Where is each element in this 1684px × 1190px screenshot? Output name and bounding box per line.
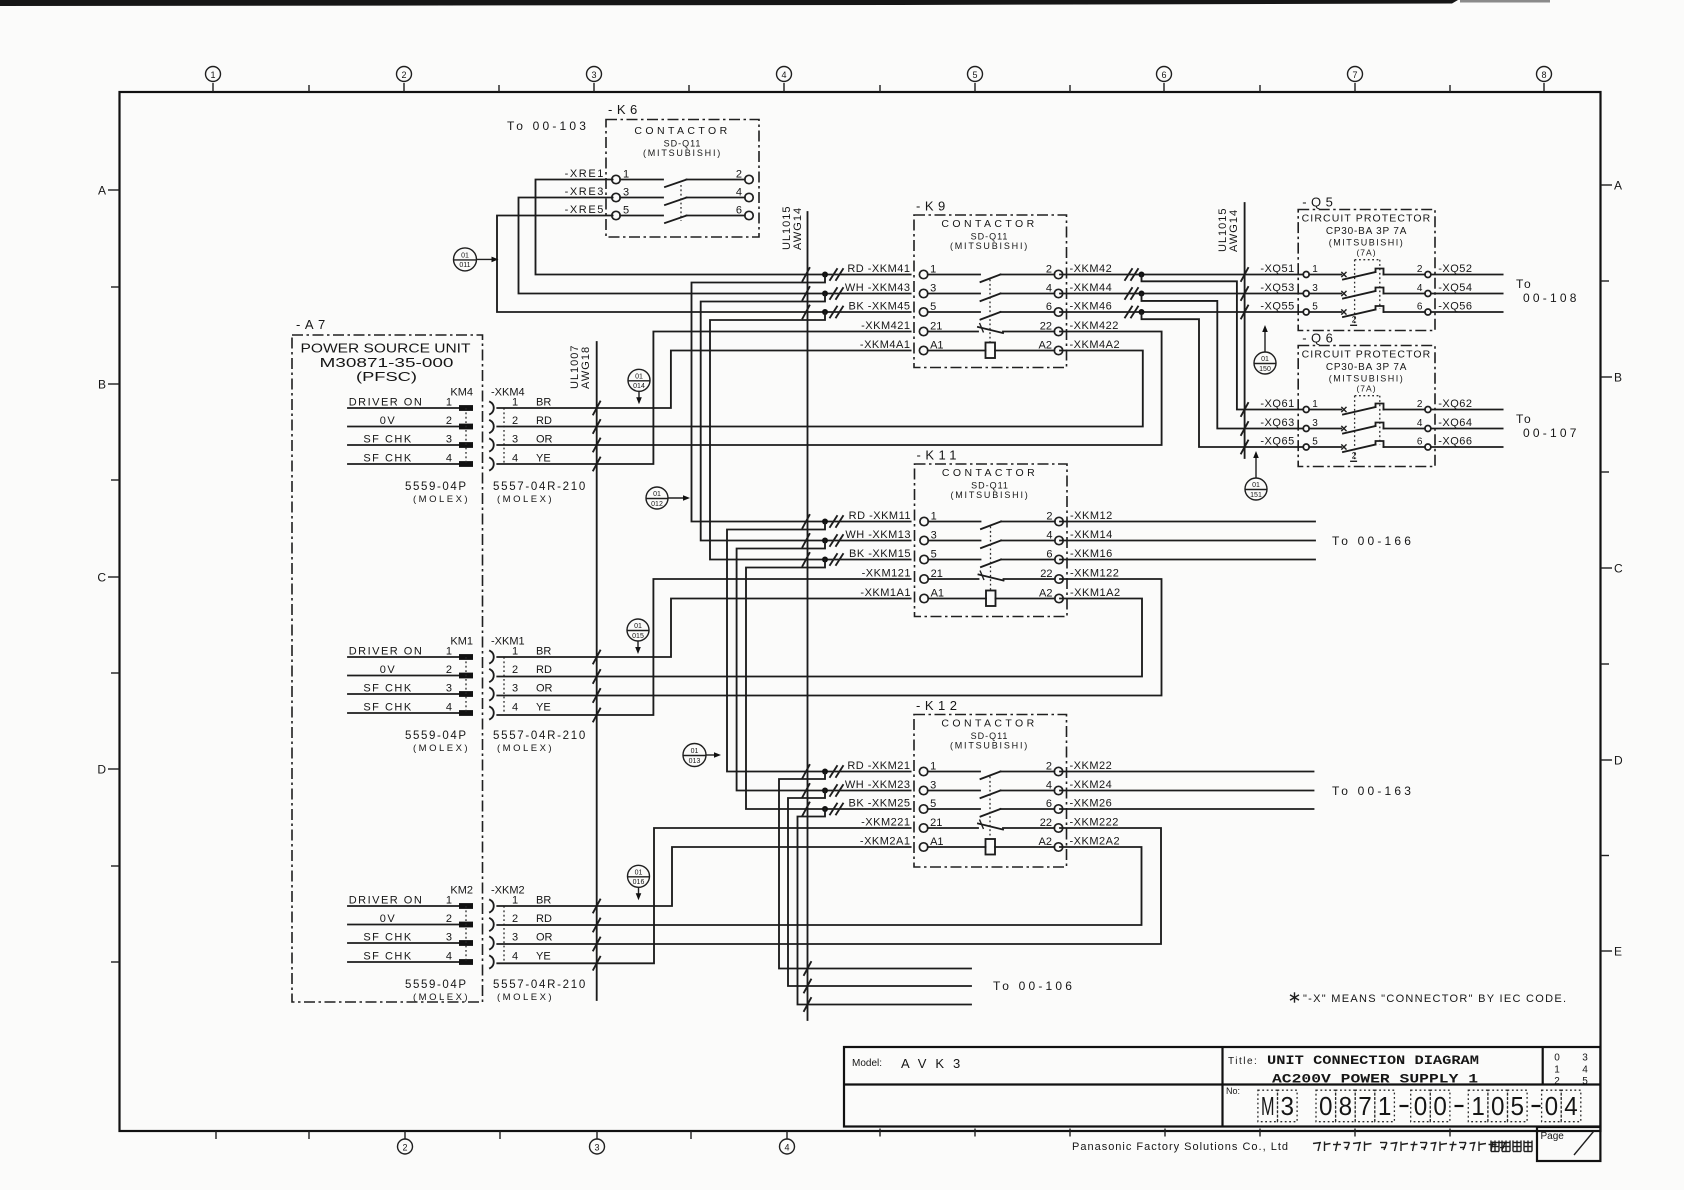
svg-text:To: To xyxy=(1516,412,1533,426)
XKM4 harness: BR wire to coil A1 xyxy=(497,351,910,415)
svg-text:-XQ53: -XQ53 xyxy=(1260,282,1294,294)
svg-text:M: M xyxy=(1261,1091,1275,1121)
svg-text:-XKM2A2: -XKM2A2 xyxy=(1070,836,1121,848)
svg-text:151: 151 xyxy=(1250,492,1262,499)
title block xyxy=(844,1047,1600,1127)
svg-text:(MOLEX): (MOLEX) xyxy=(497,992,554,1003)
svg-text:-XQ54: -XQ54 xyxy=(1438,282,1472,294)
svg-text:YE: YE xyxy=(536,452,551,464)
svg-text:4: 4 xyxy=(784,1142,789,1152)
svg-text:(MOLEX): (MOLEX) xyxy=(413,992,470,1003)
svg-text:(MITSUBISHI): (MITSUBISHI) xyxy=(950,241,1029,251)
svg-text:6: 6 xyxy=(1046,798,1052,810)
svg-text:8: 8 xyxy=(1541,70,1546,80)
svg-text:4: 4 xyxy=(446,950,452,962)
sheet ref 01/150 xyxy=(1254,325,1276,374)
svg-text:KM1: KM1 xyxy=(450,636,473,648)
svg-text:BK -XKM25: BK -XKM25 xyxy=(849,798,911,810)
sheet ref 01/013 xyxy=(683,744,721,767)
svg-text:BK -XKM15: BK -XKM15 xyxy=(849,548,911,560)
svg-text:013: 013 xyxy=(689,758,701,765)
svg-text:2: 2 xyxy=(446,913,452,925)
svg-text:015: 015 xyxy=(632,633,644,640)
sheet ref 01/014 xyxy=(628,369,650,404)
svg-text:(MITSUBISHI): (MITSUBISHI) xyxy=(1329,374,1405,384)
svg-text:4: 4 xyxy=(446,452,452,464)
svg-text:KM4: KM4 xyxy=(450,387,473,399)
svg-text:2: 2 xyxy=(446,664,452,676)
svg-text:1: 1 xyxy=(210,70,215,80)
svg-text:5: 5 xyxy=(1312,437,1318,448)
page box xyxy=(1537,1127,1600,1161)
svg-text:2: 2 xyxy=(512,913,518,925)
svg-text:To 00-106: To 00-106 xyxy=(993,979,1075,993)
wire K9.2 (-XKM42) to Q5.1 and Q6.1 xyxy=(1060,268,1303,416)
svg-text:22: 22 xyxy=(1040,568,1052,580)
svg-text:2: 2 xyxy=(401,70,406,80)
svg-text:Panasonic Factory Solutions Co: Panasonic Factory Solutions Co., Ltd xyxy=(1072,1141,1288,1153)
svg-text:(MITSUBISHI): (MITSUBISHI) xyxy=(950,490,1029,500)
svg-text:(MOLEX): (MOLEX) xyxy=(413,743,470,754)
wire K9.4 (-XKM44) to Q5.3 and Q6.3 xyxy=(1060,287,1303,435)
wire net RD (K6.1 to K9.1/K11.1/K12.1, To 00-106) xyxy=(536,180,972,976)
svg-text:5: 5 xyxy=(972,70,977,80)
svg-text:C: C xyxy=(1614,562,1623,576)
svg-text:D: D xyxy=(97,763,106,777)
svg-text:-XQ62: -XQ62 xyxy=(1438,398,1472,410)
svg-text:5559-04P: 5559-04P xyxy=(405,730,468,742)
note: -X means connector by IEC code xyxy=(1290,992,1566,1005)
svg-text:BR: BR xyxy=(536,645,551,657)
svg-text:3: 3 xyxy=(446,931,452,943)
XKM2 harness: BR wire to coil A1 xyxy=(497,847,910,913)
svg-text:SF CHK: SF CHK xyxy=(363,931,412,943)
svg-text:-K11: -K11 xyxy=(917,448,962,463)
svg-text:(MOLEX): (MOLEX) xyxy=(497,743,554,754)
svg-text:1: 1 xyxy=(446,396,452,408)
svg-text:1: 1 xyxy=(1471,1091,1485,1121)
svg-text:011: 011 xyxy=(459,262,470,269)
svg-text:01: 01 xyxy=(635,870,643,877)
svg-text:3: 3 xyxy=(1582,1053,1588,1064)
svg-text:-K9: -K9 xyxy=(916,199,950,214)
svg-text:AVK3: AVK3 xyxy=(901,1056,969,1071)
XKM1 harness: OR wire (SF CHK to contact 22) xyxy=(497,579,1161,702)
svg-text:-XRE5: -XRE5 xyxy=(565,204,605,216)
circuit protector Q6 xyxy=(1260,331,1472,467)
svg-text:8: 8 xyxy=(1339,1091,1353,1121)
svg-text:DRIVER ON: DRIVER ON xyxy=(349,894,424,906)
svg-text:2: 2 xyxy=(1046,510,1052,522)
svg-text:1: 1 xyxy=(512,645,518,657)
wire-class line UL1015 AWG14 (right) xyxy=(1217,203,1245,458)
svg-text:0: 0 xyxy=(1433,1091,1447,1121)
svg-text:5: 5 xyxy=(1582,1076,1588,1087)
svg-text:3: 3 xyxy=(594,1142,599,1152)
svg-text:0: 0 xyxy=(1545,1091,1559,1121)
svg-text:(7A): (7A) xyxy=(1356,384,1376,394)
svg-text:-XKM46: -XKM46 xyxy=(1070,301,1113,313)
svg-text:CONTACTOR: CONTACTOR xyxy=(941,718,1037,730)
svg-text:-XKM221: -XKM221 xyxy=(861,817,910,829)
svg-text:CIRCUIT PROTECTOR: CIRCUIT PROTECTOR xyxy=(1302,349,1432,361)
svg-text:B: B xyxy=(1614,371,1622,385)
svg-text:1: 1 xyxy=(446,645,452,657)
svg-text:-XKM14: -XKM14 xyxy=(1070,529,1113,541)
svg-text:RD -XKM11: RD -XKM11 xyxy=(849,510,911,522)
svg-text:A: A xyxy=(98,184,106,198)
drawing border frame xyxy=(120,92,1601,1131)
svg-text:0: 0 xyxy=(1491,1091,1505,1121)
wires Q5 outputs to 00-108 xyxy=(1431,275,1580,313)
XKM2 harness: YE wire (SF CHK to contact 21) xyxy=(497,828,910,970)
svg-text:4: 4 xyxy=(1046,529,1052,541)
svg-text:3: 3 xyxy=(512,433,518,445)
svg-text:1: 1 xyxy=(512,396,518,408)
svg-text:DRIVER ON: DRIVER ON xyxy=(349,645,424,657)
company name xyxy=(1072,1141,1532,1154)
svg-text:4: 4 xyxy=(1046,282,1052,294)
XKM4 harness: YE wire (SF CHK to contact 21) xyxy=(497,332,910,471)
svg-text:01: 01 xyxy=(653,491,661,498)
svg-text:RD: RD xyxy=(536,664,552,676)
svg-text:-XQ61: -XQ61 xyxy=(1260,398,1294,410)
svg-text:-Q5: -Q5 xyxy=(1302,195,1337,210)
svg-text:-XQ51: -XQ51 xyxy=(1260,263,1294,275)
svg-text:YE: YE xyxy=(536,950,551,962)
svg-text:2: 2 xyxy=(736,168,742,180)
svg-text:4: 4 xyxy=(736,186,742,198)
svg-text:OR: OR xyxy=(536,931,553,943)
svg-text:01: 01 xyxy=(634,623,642,630)
svg-text:01: 01 xyxy=(691,748,699,755)
svg-text:No:: No: xyxy=(1226,1086,1240,1096)
svg-text:WH -XKM43: WH -XKM43 xyxy=(845,282,911,294)
svg-text:3: 3 xyxy=(446,433,452,445)
sheet ref 01/151 xyxy=(1245,451,1267,500)
svg-text:5557-04R-210: 5557-04R-210 xyxy=(493,481,587,493)
svg-text:DRIVER ON: DRIVER ON xyxy=(349,396,424,408)
svg-text:E: E xyxy=(1614,945,1622,959)
wire net WH (K6.3 to K9.3/K11.3/K12.3, To 00-106) xyxy=(519,198,972,993)
svg-text:SF CHK: SF CHK xyxy=(363,682,412,694)
svg-text:2: 2 xyxy=(1352,314,1357,324)
drawing number boxes M3 0871-00-105-04 xyxy=(1258,1090,1581,1122)
svg-text:-XQ64: -XQ64 xyxy=(1438,417,1472,429)
svg-text:AC200V POWER SUPPLY 1: AC200V POWER SUPPLY 1 xyxy=(1272,1072,1478,1087)
svg-text:2: 2 xyxy=(1417,399,1423,410)
svg-text:SD-Q11: SD-Q11 xyxy=(971,232,1009,242)
svg-text:SF CHK: SF CHK xyxy=(363,433,412,445)
svg-text:BK -XKM45: BK -XKM45 xyxy=(849,301,911,313)
svg-text:3: 3 xyxy=(1281,1091,1295,1121)
svg-text:CONTACTOR: CONTACTOR xyxy=(941,218,1037,230)
svg-text:-XKM12: -XKM12 xyxy=(1070,510,1113,522)
row markers left A-D xyxy=(97,184,119,963)
svg-text:2: 2 xyxy=(1352,450,1357,460)
svg-text:RD -XKM21: RD -XKM21 xyxy=(847,760,910,772)
svg-text:4: 4 xyxy=(446,701,452,713)
svg-text:Page: Page xyxy=(1541,1131,1565,1142)
contactor K9 xyxy=(845,199,1120,368)
svg-text:RD: RD xyxy=(536,415,552,427)
svg-text:CIRCUIT PROTECTOR: CIRCUIT PROTECTOR xyxy=(1302,213,1432,225)
svg-text:7: 7 xyxy=(1358,1091,1372,1121)
scan artifact: top black bar xyxy=(0,0,1550,6)
svg-text:-XQ63: -XQ63 xyxy=(1260,417,1294,429)
svg-text:016: 016 xyxy=(633,879,645,886)
svg-text:4: 4 xyxy=(512,452,518,464)
svg-text:D: D xyxy=(1614,754,1623,768)
svg-text:AWG18: AWG18 xyxy=(580,346,592,389)
svg-text:012: 012 xyxy=(651,501,663,508)
svg-text:"-X" MEANS "CONNECTOR" BY IEC: "-X" MEANS "CONNECTOR" BY IEC CODE. xyxy=(1303,993,1566,1005)
svg-text:-XKM4A1: -XKM4A1 xyxy=(860,339,911,351)
svg-text:Model:: Model: xyxy=(852,1058,882,1069)
XKM4 harness: RD wire (0V return from coil A2) xyxy=(497,351,1143,434)
svg-text:3: 3 xyxy=(1312,418,1318,429)
svg-text:SF CHK: SF CHK xyxy=(363,452,412,464)
sheet ref 01/011 xyxy=(454,248,499,271)
svg-text:BR: BR xyxy=(536,396,551,408)
svg-text:1: 1 xyxy=(1554,1064,1560,1075)
svg-text:6: 6 xyxy=(1046,301,1052,313)
circuit protector Q5 xyxy=(1260,195,1472,331)
svg-text:(MOLEX): (MOLEX) xyxy=(497,494,554,505)
svg-text:AWG14: AWG14 xyxy=(792,207,804,250)
svg-text:-XKM44: -XKM44 xyxy=(1070,282,1113,294)
svg-text:6: 6 xyxy=(736,204,742,216)
svg-text:3: 3 xyxy=(1312,283,1318,294)
svg-text:(MITSUBISHI): (MITSUBISHI) xyxy=(950,741,1029,751)
svg-text:2: 2 xyxy=(1417,264,1423,275)
svg-text:-XKM122: -XKM122 xyxy=(1070,568,1119,580)
svg-text:M30871-35-000: M30871-35-000 xyxy=(320,355,454,370)
svg-text:OR: OR xyxy=(536,682,553,694)
svg-text:5557-04R-210: 5557-04R-210 xyxy=(493,979,587,991)
sheet ref 01/012 xyxy=(646,487,690,509)
svg-text:-XRE1: -XRE1 xyxy=(565,168,605,180)
svg-text:-XKM4A2: -XKM4A2 xyxy=(1070,339,1121,351)
svg-text:1: 1 xyxy=(1378,1091,1392,1121)
svg-text:0: 0 xyxy=(1319,1091,1333,1121)
wire K9.6 (-XKM46) to Q5.5 and Q6.5 xyxy=(1060,306,1303,454)
connector KM1 / -XKM1 (PSU harness) xyxy=(348,636,587,755)
XKM1 harness: RD wire (0V return from coil A2) xyxy=(497,599,1142,684)
XKM2 harness: OR wire (SF CHK to contact 22) xyxy=(497,828,1161,951)
svg-text:-XQ52: -XQ52 xyxy=(1438,263,1472,275)
contactor K12 xyxy=(845,698,1120,867)
wire net BK (K6.5 to K9.5/K11.5/K12.5, To 00-106) xyxy=(497,216,971,1012)
svg-text:OR: OR xyxy=(536,433,553,445)
svg-text:-XKM24: -XKM24 xyxy=(1070,779,1113,791)
svg-text:-XKM2: -XKM2 xyxy=(491,885,525,897)
svg-text:-XQ66: -XQ66 xyxy=(1438,436,1472,448)
svg-text:01: 01 xyxy=(1261,356,1269,363)
svg-text:SD-Q11: SD-Q11 xyxy=(971,481,1009,491)
svg-text:5: 5 xyxy=(1511,1091,1525,1121)
svg-text:SF CHK: SF CHK xyxy=(363,950,412,962)
svg-text:0V: 0V xyxy=(380,913,396,925)
svg-text:4: 4 xyxy=(512,950,518,962)
svg-text:2: 2 xyxy=(1554,1076,1560,1087)
svg-text:6: 6 xyxy=(1161,70,1166,80)
svg-text:To 00-163: To 00-163 xyxy=(1332,784,1414,798)
svg-text:CP30-BA 3P 7A: CP30-BA 3P 7A xyxy=(1326,226,1407,237)
svg-text:3: 3 xyxy=(591,70,596,80)
svg-text:150: 150 xyxy=(1259,366,1271,373)
connector KM4 / -XKM4 (PSU harness) xyxy=(348,387,587,506)
XKM1 harness: YE wire (SF CHK to contact 21) xyxy=(497,579,910,722)
wires K12 outputs to 00-163 xyxy=(1060,772,1414,810)
svg-text:WH -XKM13: WH -XKM13 xyxy=(845,529,911,541)
column markers top 1-8 xyxy=(206,67,1552,93)
row markers right A-E xyxy=(1601,179,1624,959)
svg-text:WH -XKM23: WH -XKM23 xyxy=(845,779,911,791)
svg-text:-XQ55: -XQ55 xyxy=(1260,301,1294,313)
sheet ref 01/016 xyxy=(628,865,650,900)
svg-text:01: 01 xyxy=(461,253,469,260)
svg-text:01: 01 xyxy=(635,374,643,381)
svg-text:01: 01 xyxy=(1252,482,1260,489)
svg-text:2: 2 xyxy=(402,1142,407,1152)
svg-text:5559-04P: 5559-04P xyxy=(405,979,468,991)
svg-text:0: 0 xyxy=(1554,1053,1560,1064)
svg-text:7: 7 xyxy=(1352,70,1357,80)
svg-text:-XQ65: -XQ65 xyxy=(1260,436,1294,448)
svg-text:5: 5 xyxy=(1312,302,1318,313)
svg-text:CP30-BA 3P 7A: CP30-BA 3P 7A xyxy=(1326,362,1407,373)
svg-text:UNIT CONNECTION DIAGRAM: UNIT CONNECTION DIAGRAM xyxy=(1267,1053,1479,1068)
svg-text:C: C xyxy=(97,571,106,585)
column markers bottom 2-4 xyxy=(216,1129,1450,1155)
svg-text:AWG14: AWG14 xyxy=(1228,209,1240,252)
wire-class line UL1015 AWG14 (left) xyxy=(781,205,808,1020)
svg-text:To 00-103: To 00-103 xyxy=(507,119,589,133)
svg-text:POWER SOURCE UNIT: POWER SOURCE UNIT xyxy=(301,341,471,356)
svg-text:-K12: -K12 xyxy=(916,698,961,713)
svg-text:-XKM22: -XKM22 xyxy=(1070,760,1113,772)
XKM2 harness: RD wire (0V return from coil A2) xyxy=(497,847,1141,932)
svg-text:RD: RD xyxy=(536,913,552,925)
svg-text:To: To xyxy=(1516,277,1533,291)
svg-text:-XKM121: -XKM121 xyxy=(862,568,911,580)
wires Q6 outputs to 00-107 xyxy=(1431,410,1580,448)
svg-text:-A7: -A7 xyxy=(296,317,330,332)
svg-text:A2: A2 xyxy=(1039,339,1052,351)
svg-text:-XKM26: -XKM26 xyxy=(1070,798,1113,810)
svg-text:00-108: 00-108 xyxy=(1523,291,1580,305)
svg-text:B: B xyxy=(98,378,106,392)
svg-text:5559-04P: 5559-04P xyxy=(405,481,468,493)
svg-text:0V: 0V xyxy=(380,664,396,676)
contactor K6 xyxy=(565,102,759,237)
svg-text:YE: YE xyxy=(536,701,551,713)
svg-text:3: 3 xyxy=(512,931,518,943)
svg-text:A2: A2 xyxy=(1039,836,1052,848)
connector KM2 / -XKM2 (PSU harness) xyxy=(348,885,587,1004)
svg-text:4: 4 xyxy=(1417,418,1423,429)
svg-text:Title:: Title: xyxy=(1228,1056,1258,1067)
power source unit A7 xyxy=(292,317,483,1002)
sheet ref 01/015 xyxy=(627,619,649,654)
svg-text:00-107: 00-107 xyxy=(1523,426,1580,440)
svg-text:6: 6 xyxy=(1417,437,1423,448)
svg-text:-XKM42: -XKM42 xyxy=(1070,263,1113,275)
svg-text:2: 2 xyxy=(512,415,518,427)
svg-text:-XKM422: -XKM422 xyxy=(1070,320,1119,332)
svg-text:CONTACTOR: CONTACTOR xyxy=(942,467,1038,479)
svg-text:(MITSUBISHI): (MITSUBISHI) xyxy=(643,148,722,158)
svg-text:4: 4 xyxy=(512,701,518,713)
svg-text:RD -XKM41: RD -XKM41 xyxy=(847,263,910,275)
contactor K11 xyxy=(845,448,1120,617)
svg-text:5557-04R-210: 5557-04R-210 xyxy=(493,730,587,742)
svg-text:(MOLEX): (MOLEX) xyxy=(413,494,470,505)
svg-text:To 00-166: To 00-166 xyxy=(1332,534,1414,548)
svg-text:0V: 0V xyxy=(380,415,396,427)
svg-text:-Q6: -Q6 xyxy=(1302,331,1337,346)
svg-text:6: 6 xyxy=(1417,302,1423,313)
svg-text:3: 3 xyxy=(512,682,518,694)
svg-text:-XKM1A1: -XKM1A1 xyxy=(860,587,911,599)
svg-text:A: A xyxy=(1614,179,1622,193)
svg-text:22: 22 xyxy=(1040,320,1052,332)
svg-text:1: 1 xyxy=(1312,399,1318,410)
svg-text:2: 2 xyxy=(1046,760,1052,772)
wire-class line UL1007 AWG18 xyxy=(569,342,597,1000)
svg-text:(MITSUBISHI): (MITSUBISHI) xyxy=(1329,238,1405,248)
svg-text:4: 4 xyxy=(1417,283,1423,294)
svg-text:-XKM1A2: -XKM1A2 xyxy=(1070,587,1121,599)
XKM4 harness: OR wire (SF CHK to contact 22) xyxy=(497,332,1161,452)
svg-text:(PFSC): (PFSC) xyxy=(356,369,417,384)
svg-text:2: 2 xyxy=(1046,263,1052,275)
svg-text:4: 4 xyxy=(1564,1091,1578,1121)
svg-text:SD-Q11: SD-Q11 xyxy=(971,731,1009,741)
svg-text:014: 014 xyxy=(633,383,645,390)
svg-text:SD-Q11: SD-Q11 xyxy=(664,139,702,149)
svg-text:-XRE3: -XRE3 xyxy=(565,186,605,198)
svg-text:1: 1 xyxy=(512,894,518,906)
svg-text:-XKM16: -XKM16 xyxy=(1070,548,1113,560)
svg-text:4: 4 xyxy=(781,70,786,80)
svg-text:(7A): (7A) xyxy=(1356,248,1376,258)
svg-text:-K6: -K6 xyxy=(608,102,642,117)
wires K11 outputs to 00-166 xyxy=(1060,522,1414,560)
svg-text:2: 2 xyxy=(446,415,452,427)
svg-text:-XQ56: -XQ56 xyxy=(1438,301,1472,313)
svg-text:0: 0 xyxy=(1414,1091,1428,1121)
svg-text:SF CHK: SF CHK xyxy=(363,701,412,713)
svg-text:6: 6 xyxy=(1046,548,1052,560)
svg-text:22: 22 xyxy=(1040,817,1052,829)
XKM1 harness: BR wire to coil A1 xyxy=(497,599,910,664)
svg-text:3: 3 xyxy=(446,682,452,694)
svg-text:1: 1 xyxy=(1312,264,1318,275)
svg-text:-XKM421: -XKM421 xyxy=(861,320,910,332)
svg-text:-XKM2A1: -XKM2A1 xyxy=(860,836,911,848)
svg-text:BR: BR xyxy=(536,894,551,906)
svg-text:A2: A2 xyxy=(1039,587,1052,599)
svg-text:4: 4 xyxy=(1582,1064,1588,1075)
svg-text:-XKM222: -XKM222 xyxy=(1070,817,1119,829)
svg-text:KM2: KM2 xyxy=(450,885,473,897)
svg-text:2: 2 xyxy=(512,664,518,676)
svg-text:4: 4 xyxy=(1046,779,1052,791)
svg-text:-XKM4: -XKM4 xyxy=(491,387,525,399)
svg-text:-XKM1: -XKM1 xyxy=(491,636,525,648)
